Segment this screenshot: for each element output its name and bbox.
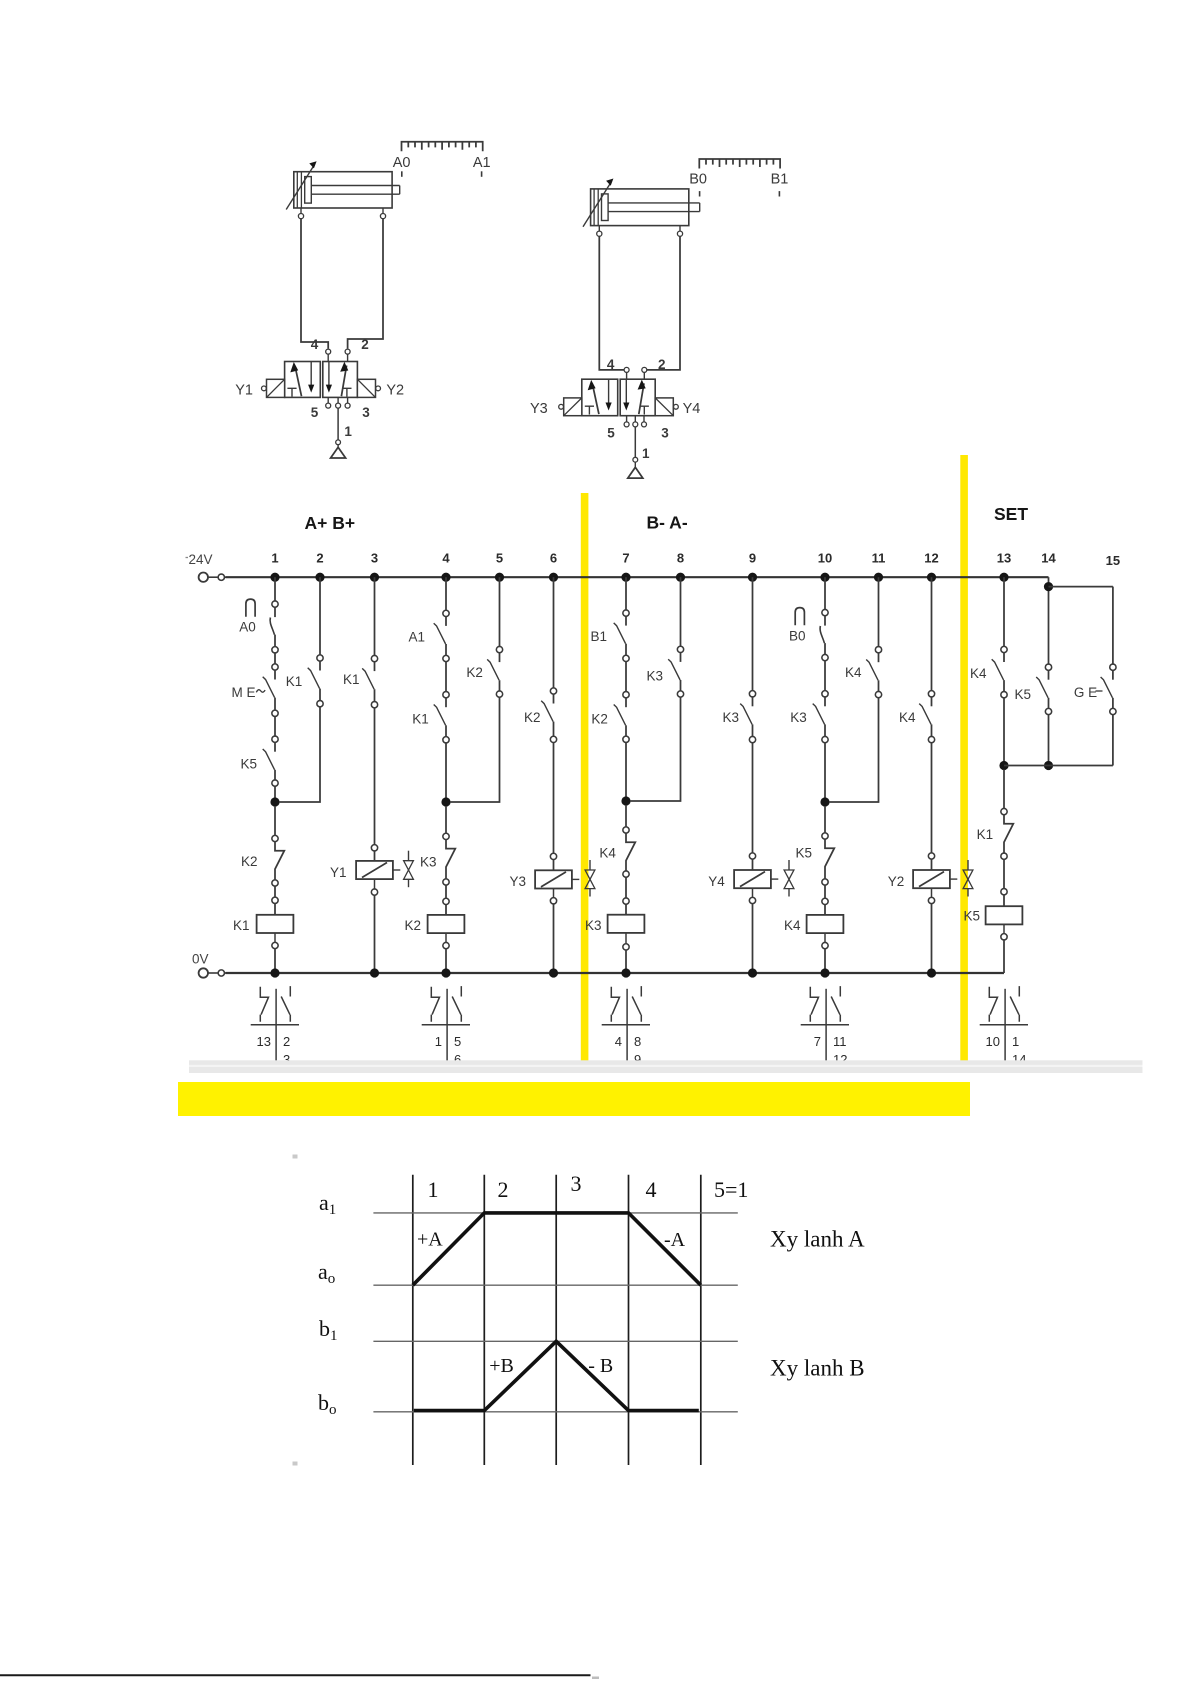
ruler end mark under A0 xyxy=(401,171,403,177)
relay contact K3 (NO) rung 9 xyxy=(749,691,755,697)
svg-text:Y4: Y4 xyxy=(708,874,725,889)
svg-text:A0: A0 xyxy=(393,155,411,171)
relay contact K2 (NC) rung 1 xyxy=(272,835,278,841)
relay contact K1 (NC) rung 13 xyxy=(1001,808,1007,814)
svg-text:9: 9 xyxy=(749,551,756,566)
junction node rung 6 on 0V rail xyxy=(549,968,558,977)
wire to 0V rail end xyxy=(1003,924,1005,933)
svg-text:K3: K3 xyxy=(723,710,740,725)
valve A port 5 xyxy=(326,403,331,408)
window edge grey bar xyxy=(189,1060,1143,1073)
wire xyxy=(274,653,276,664)
svg-text:K2: K2 xyxy=(524,710,541,725)
valve B right chamber blocked port T xyxy=(640,406,649,414)
coil pin xyxy=(749,853,755,859)
wire to 0V rail xyxy=(445,933,447,942)
Y4 coil right tick xyxy=(771,878,778,880)
wire rung 2 down to branch xyxy=(279,707,320,802)
svg-text:K1: K1 xyxy=(286,674,303,689)
valve B solenoid Y4 box xyxy=(655,398,673,416)
svg-text:-A: -A xyxy=(664,1229,686,1251)
relay contact K3 (NO) rung 10 xyxy=(822,691,828,697)
branch node rung 4/5 xyxy=(441,797,450,806)
cylinder B piston rod xyxy=(608,202,700,204)
coil pin xyxy=(272,897,278,903)
svg-text:K4: K4 xyxy=(599,846,616,861)
svg-text:5: 5 xyxy=(311,405,319,420)
wire xyxy=(625,877,627,898)
24V terminal circles xyxy=(199,573,208,582)
arc symbol of A0 xyxy=(246,599,255,617)
branch node rung 7/8 xyxy=(621,796,630,805)
svg-text:24V: 24V xyxy=(189,552,213,567)
svg-text:6: 6 xyxy=(550,551,557,566)
wire rung 5 from 24V rail xyxy=(499,577,501,646)
wire rung 12 from 24V rail xyxy=(931,577,933,691)
stray grey mark above step diagram xyxy=(293,1155,298,1159)
svg-text:Y3: Y3 xyxy=(510,874,527,889)
junction node rung 11 on 24V rail xyxy=(874,573,883,582)
wire to SET branch node xyxy=(1003,698,1005,770)
junction node rung 10 on 0V rail xyxy=(820,968,829,977)
junction node rung 4 on 0V rail xyxy=(441,968,450,977)
valve A port 2 xyxy=(345,349,350,354)
svg-text:7: 7 xyxy=(622,551,629,566)
svg-text:1: 1 xyxy=(344,424,352,439)
valve B solenoid Y3 box xyxy=(564,398,582,416)
coil pin xyxy=(550,853,556,859)
0V return rail xyxy=(226,972,1005,974)
cylinder B displacement trace xyxy=(414,1341,699,1410)
relay coil K4 rung 10 xyxy=(807,915,844,933)
svg-text:Xy lanh B: Xy lanh B xyxy=(770,1356,865,1381)
relay coil K1 rung 1 xyxy=(257,915,294,933)
svg-text:K1: K1 xyxy=(412,712,429,727)
junction node rung 7 on 0V rail xyxy=(621,968,630,977)
junction node rung 13 on 24V rail xyxy=(999,573,1008,582)
valve B left chamber blocked port T xyxy=(585,406,594,414)
svg-text:4: 4 xyxy=(311,337,319,352)
relay contact K1 (NO) rung 4 xyxy=(443,692,449,698)
Y4 manual override symbol xyxy=(788,860,790,870)
ME detent squiggle xyxy=(256,690,265,693)
solenoid coil Y3 rung 6 xyxy=(535,870,572,888)
cylinder A left flange lines xyxy=(296,172,298,208)
wire rung 11 down to branch xyxy=(829,698,879,802)
svg-text:K5: K5 xyxy=(796,846,813,861)
svg-text:10: 10 xyxy=(986,1034,1000,1049)
valve B right chamber flow path 1-4 arrow xyxy=(639,383,644,414)
relay coil K2 rung 4 xyxy=(428,915,465,933)
cylinder B left flange lines xyxy=(593,189,595,226)
wire to 0V rail xyxy=(824,933,826,942)
wire rung 8 down to branch xyxy=(630,697,681,801)
svg-text:4: 4 xyxy=(607,357,615,372)
svg-text:Y1: Y1 xyxy=(330,865,347,880)
coil pin xyxy=(623,898,629,904)
solenoid coil Y4 rung 9 xyxy=(734,870,771,888)
arc symbol of B0 xyxy=(795,608,804,626)
branch node rung 14 top xyxy=(1044,582,1053,591)
svg-text:A1: A1 xyxy=(473,155,491,171)
valve A 5/2 body left chamber xyxy=(285,362,321,398)
svg-text:K2: K2 xyxy=(466,665,483,680)
svg-text:Y4: Y4 xyxy=(683,401,701,417)
valve B 5/2 body left chamber xyxy=(582,379,618,416)
svg-text:B1: B1 xyxy=(771,172,789,188)
svg-text:K4: K4 xyxy=(970,666,987,681)
ruler end mark under B1 xyxy=(778,191,780,196)
svg-text:3: 3 xyxy=(362,405,370,420)
junction node rung 1 on 0V rail xyxy=(270,968,279,977)
wire xyxy=(824,885,826,898)
junction node rung 3 on 24V rail xyxy=(370,573,379,582)
svg-text:B0: B0 xyxy=(789,629,806,644)
cylinder A body xyxy=(294,172,392,208)
branch node rung 13/14/15 xyxy=(999,761,1008,770)
svg-text:2: 2 xyxy=(498,1177,509,1202)
branch node rung 14 bottom xyxy=(1044,761,1053,770)
ruler scale for cylinder A xyxy=(402,142,483,152)
relay contact K4 (NC) rung 7 xyxy=(623,827,629,833)
svg-text:K4: K4 xyxy=(899,710,916,725)
svg-text:5: 5 xyxy=(454,1034,461,1049)
valve A solenoid Y2 box xyxy=(357,379,375,397)
wire rung 7 from 24V rail xyxy=(625,577,627,610)
svg-text:A+ B+: A+ B+ xyxy=(305,513,356,533)
svg-text:+A: +A xyxy=(417,1229,443,1251)
junction node rung 5 on 24V rail xyxy=(495,573,504,582)
svg-text:K5: K5 xyxy=(1015,687,1032,702)
branch wire rung 13 to 14 bottom xyxy=(1004,765,1113,767)
wire xyxy=(752,743,754,853)
svg-text:10: 10 xyxy=(818,551,832,566)
wire to 0V rail xyxy=(274,933,276,942)
svg-text:K4: K4 xyxy=(845,665,862,680)
svg-text:Xy lanh A: Xy lanh A xyxy=(770,1227,865,1252)
relay contact K2 (NO) rung 7 xyxy=(623,692,629,698)
valve B left chamber flow path 1-2 arrow xyxy=(592,384,599,414)
cylinder A cushioning arrow xyxy=(286,167,313,210)
valve B port 1 stem xyxy=(633,422,638,427)
svg-text:K3: K3 xyxy=(585,918,602,933)
ruler end mark under B0 xyxy=(699,191,701,196)
branch wire rung 14 to 15 top xyxy=(1049,586,1113,588)
wire to 0V rail xyxy=(625,933,627,944)
0V terminal circles xyxy=(199,968,208,977)
svg-text:Y1: Y1 xyxy=(235,383,253,399)
svg-text:3: 3 xyxy=(571,1171,582,1196)
svg-text:- B: - B xyxy=(588,1355,613,1377)
svg-text:A0: A0 xyxy=(239,620,256,635)
yellow divider line 2 (before SET section) xyxy=(960,455,968,1066)
cylinder A piston rod xyxy=(311,185,399,187)
wire rung 5 down to branch xyxy=(450,697,500,802)
svg-text:K1: K1 xyxy=(233,918,250,933)
wire xyxy=(824,806,826,833)
junction node rung 7 on 24V rail xyxy=(621,573,630,582)
wire rung 9 from 24V rail xyxy=(752,577,754,691)
svg-text:B1: B1 xyxy=(591,629,608,644)
small grey tick at end of rule xyxy=(592,1677,599,1680)
svg-text:2: 2 xyxy=(283,1034,290,1049)
valve B port 3 xyxy=(642,422,647,427)
wire cylinder B left sensor to valve B port 4 xyxy=(599,236,624,370)
valve B left chamber down arrow xyxy=(608,380,610,404)
contact cross-reference table for coil K2 xyxy=(422,986,470,1072)
manual switch ME rung 1 xyxy=(272,664,278,670)
valve A port 1 stem xyxy=(336,403,341,408)
wire xyxy=(274,716,276,736)
wire xyxy=(625,805,627,827)
bottom page rule xyxy=(0,1674,591,1676)
wire xyxy=(1003,859,1005,888)
ruler end mark under A1 xyxy=(481,171,483,177)
wire to branch node xyxy=(445,743,447,806)
solenoid coil Y1 rung 3 xyxy=(356,861,393,879)
wire rung 15 down xyxy=(1112,587,1114,665)
relay coil K3 rung 7 xyxy=(608,915,645,933)
relay contact K5 (NC) rung 10 xyxy=(822,833,828,839)
wire xyxy=(445,806,447,833)
svg-text:14: 14 xyxy=(1041,551,1056,566)
svg-text:K3: K3 xyxy=(420,855,437,870)
contact cross-reference table for coil K3 xyxy=(602,986,650,1072)
svg-text:1: 1 xyxy=(435,1034,442,1049)
svg-text:K4: K4 xyxy=(784,918,801,933)
GE tick xyxy=(1096,690,1103,692)
svg-text:4: 4 xyxy=(615,1034,622,1049)
cylinder B body xyxy=(591,189,689,226)
valve A port 4 xyxy=(326,349,331,354)
coil pin xyxy=(1001,889,1007,895)
wire rung 2 from 24V rail xyxy=(319,577,321,655)
svg-text:8: 8 xyxy=(677,551,684,566)
svg-text:5=1: 5=1 xyxy=(714,1177,748,1202)
wire xyxy=(824,661,826,691)
wire to 0V rail xyxy=(553,889,555,898)
valve B port 1 line and terminal xyxy=(634,427,636,457)
relay contact K4 (NO) rung 12 xyxy=(928,691,934,697)
coil pin xyxy=(822,898,828,904)
wire xyxy=(374,708,376,845)
cylinder B sensor B1 terminal xyxy=(679,226,681,232)
junction node rung 3 on 0V rail xyxy=(370,968,379,977)
junction node rung 12 on 0V rail xyxy=(927,968,936,977)
valve B port 2 xyxy=(642,367,647,372)
contact cross-reference table for coil K4 xyxy=(801,986,849,1072)
wire to 0V rail xyxy=(374,879,376,889)
svg-text:2: 2 xyxy=(361,337,369,352)
Y1 manual override symbol xyxy=(408,851,410,861)
cylinder B piston xyxy=(602,194,609,221)
svg-text:K2: K2 xyxy=(241,854,258,869)
limit switch contact B0 (actuated) rung 10 xyxy=(822,609,828,615)
Y3 coil right tick xyxy=(572,878,579,880)
valve A left chamber blocked port T xyxy=(287,388,296,396)
relay contact K5 (NO) rung 1 xyxy=(272,736,278,742)
svg-text:G E: G E xyxy=(1074,685,1097,700)
yellow highlight bar (bottom) xyxy=(178,1082,970,1116)
svg-text:K1: K1 xyxy=(343,672,360,687)
svg-text:K2: K2 xyxy=(591,712,608,727)
junction node rung 12 on 24V rail xyxy=(927,573,936,582)
ruler scale for cylinder B xyxy=(699,159,780,169)
svg-text:1: 1 xyxy=(1012,1034,1019,1049)
valve B exhaust triangle xyxy=(634,462,636,467)
yellow divider line 1 (between A+B+ and B-A- sections) xyxy=(581,493,589,1066)
svg-text:15: 15 xyxy=(1106,553,1120,568)
coil pin xyxy=(443,898,449,904)
branch node rung 1/2 xyxy=(270,797,279,806)
wire xyxy=(274,886,276,897)
cylinder A piston xyxy=(305,177,312,204)
wire xyxy=(553,743,555,854)
svg-text:+B: +B xyxy=(489,1355,514,1377)
svg-text:K3: K3 xyxy=(647,669,664,684)
wire xyxy=(445,885,447,898)
relay contact K3 (NC) rung 4 xyxy=(443,833,449,839)
relay contact K2 (NO) rung 6 xyxy=(550,688,556,694)
svg-text:13: 13 xyxy=(997,551,1011,566)
coil pin xyxy=(371,845,377,851)
valve A 5/2 body right chamber xyxy=(323,362,358,398)
svg-text:1: 1 xyxy=(642,446,650,461)
cylinder B cushioning arrow xyxy=(583,184,610,227)
svg-text:B0: B0 xyxy=(689,172,707,188)
junction node rung 10 on 24V rail xyxy=(820,573,829,582)
svg-text:4: 4 xyxy=(442,551,450,566)
svg-text:B- A-: B- A- xyxy=(647,513,688,533)
svg-text:2: 2 xyxy=(658,357,666,372)
svg-text:1: 1 xyxy=(428,1177,439,1202)
svg-text:3: 3 xyxy=(371,551,378,566)
svg-text:K5: K5 xyxy=(241,757,258,772)
svg-text:12: 12 xyxy=(924,551,938,566)
relay coil K5 rung 13 xyxy=(986,906,1023,924)
contact cross-reference table for coil K5 xyxy=(980,986,1028,1072)
svg-text:3: 3 xyxy=(661,426,669,441)
valve B solenoid Y3 terminal xyxy=(559,404,564,409)
valve B solenoid Y4 terminal xyxy=(674,404,679,409)
cylinder A sensor A1 terminal xyxy=(382,208,384,214)
wire rung 11 from 24V rail xyxy=(878,577,880,646)
valve A right chamber flow path 1-4 arrow xyxy=(341,366,346,397)
wire xyxy=(445,662,447,692)
wire cylinder B right sensor to valve B port 2 xyxy=(647,236,680,370)
svg-text:5: 5 xyxy=(607,426,615,441)
wire rung 4 from 24V rail xyxy=(445,577,447,610)
wire rung 8 from 24V rail xyxy=(680,577,682,646)
svg-text:Y2: Y2 xyxy=(386,383,404,399)
svg-text:11: 11 xyxy=(833,1034,847,1049)
step diagram horizontal level lines xyxy=(373,1213,737,1412)
pushbutton contact GE rung 15 xyxy=(1110,664,1116,670)
valve B port 5 xyxy=(624,422,629,427)
Y3 manual override symbol xyxy=(589,860,591,870)
valve A left chamber flow path 1-2 arrow xyxy=(295,366,302,396)
svg-text:A1: A1 xyxy=(409,630,426,645)
cylinder B sensor B0 terminal xyxy=(598,226,600,232)
wire cylinder A left sensor to valve A port 4 xyxy=(301,219,328,349)
limit switch contact A0 (actuated) rung 1 xyxy=(272,601,278,607)
junction node rung 1 on 24V rail xyxy=(270,573,279,582)
wire cylinder A right sensor to valve A port 2 xyxy=(348,219,383,349)
wire rung 15 to bottom branch xyxy=(1112,715,1114,766)
junction node rung 2 on 24V rail xyxy=(315,573,324,582)
junction node rung 4 on 24V rail xyxy=(441,573,450,582)
wire rung 6 from 24V rail xyxy=(553,577,555,688)
wire xyxy=(931,743,933,853)
valve A solenoid Y2 terminal xyxy=(376,386,381,391)
Y2 manual override symbol xyxy=(967,860,969,870)
relay contact K4 (NO) rung 11 xyxy=(875,647,881,653)
svg-text:2: 2 xyxy=(316,551,323,566)
svg-text:13: 13 xyxy=(257,1034,271,1049)
solenoid coil Y2 rung 12 xyxy=(913,870,950,888)
wire to branch node xyxy=(625,742,627,805)
svg-text:1: 1 xyxy=(271,551,278,566)
valve A port 1 line and terminal xyxy=(337,408,339,440)
cylinder A sensor A0 terminal xyxy=(300,208,302,214)
wire rung 10 from 24V rail xyxy=(824,577,826,609)
junction node rung 9 on 0V rail xyxy=(748,968,757,977)
svg-text:K3: K3 xyxy=(790,710,807,725)
wire xyxy=(274,806,276,835)
relay contact K4 (NO) rung 13 xyxy=(1001,646,1007,652)
valve A exhaust triangle xyxy=(337,445,339,448)
contact cross-reference table for coil K1 xyxy=(251,986,299,1072)
branch node rung 10/11 xyxy=(820,797,829,806)
svg-text:7: 7 xyxy=(814,1034,821,1049)
wire rung 14 to bottom branch xyxy=(1048,715,1050,766)
wire rung 3 from 24V rail xyxy=(374,577,376,655)
wire to 0V rail xyxy=(752,888,754,897)
Y2 coil right tick xyxy=(950,878,957,880)
svg-text:K2: K2 xyxy=(405,918,422,933)
svg-text:Y3: Y3 xyxy=(530,401,548,417)
wire to 0V rail xyxy=(931,888,933,897)
valve B right chamber down arrow from port 4 xyxy=(625,380,627,404)
svg-text:0V: 0V xyxy=(192,952,209,967)
valve A solenoid Y1 terminal xyxy=(262,386,267,391)
cylinder A displacement trace xyxy=(413,1213,701,1285)
valve B 5/2 body right chamber xyxy=(620,379,655,416)
svg-text:K1: K1 xyxy=(977,827,994,842)
wire to branch node xyxy=(274,786,276,806)
step diagram vertical grid lines xyxy=(413,1175,701,1465)
wire rung 14 from 24V rail xyxy=(1048,577,1050,664)
valve A left chamber down arrow xyxy=(310,362,312,386)
coil pin xyxy=(928,853,934,859)
wire rung 1 from 24V rail xyxy=(274,577,276,601)
wire to branch node xyxy=(824,743,826,806)
valve A port 3 xyxy=(345,403,350,408)
svg-text:5: 5 xyxy=(496,551,503,566)
svg-text:K5: K5 xyxy=(964,909,981,924)
limit switch contact B1 rung 7 xyxy=(623,610,629,616)
relay contact K2 (NO) rung 5 xyxy=(496,646,502,652)
svg-text:11: 11 xyxy=(872,551,886,566)
relay contact K1 (NO) rung 2 xyxy=(317,655,323,661)
svg-text:SET: SET xyxy=(994,504,1028,524)
valve A solenoid Y1 box xyxy=(267,379,285,397)
svg-text:4: 4 xyxy=(646,1177,657,1202)
Y1 coil right tick xyxy=(393,869,400,871)
relay contact K3 (NO) rung 8 xyxy=(677,646,683,652)
wire xyxy=(1003,770,1005,809)
junction node rung 8 on 24V rail xyxy=(676,573,685,582)
